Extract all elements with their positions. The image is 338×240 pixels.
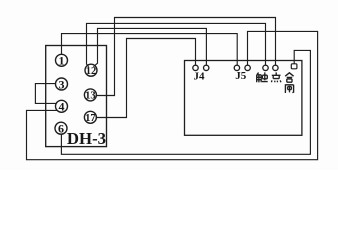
terminal 6: [55, 122, 67, 134]
label chudian (contact) char dian: [271, 72, 281, 82]
terminal 4: [56, 100, 68, 112]
svg-text:J5: J5: [235, 70, 247, 82]
wire: terminal 12 to J4-right: [93, 28, 206, 66]
terminal 17: [84, 111, 96, 123]
wire: terminal 4 loop to J5-right: [27, 31, 318, 159]
terminal 12: [85, 64, 97, 76]
terminal hezha (close) square: [291, 64, 297, 69]
label chudian (contact) char 2: [262, 72, 268, 81]
svg-text:DH-3: DH-3: [67, 129, 106, 148]
wire: terminal 1 to J5-left: [62, 34, 238, 65]
terminal 3: [56, 78, 68, 90]
relay box DH-3: [46, 46, 107, 147]
svg-text:13: 13: [85, 91, 96, 102]
label hezha (close) char 1: [285, 73, 293, 82]
label hezha (close) char 2: [285, 84, 293, 93]
terminal 13: [84, 89, 96, 101]
terminal 1: [56, 54, 68, 66]
terminal J5 left: [234, 65, 239, 70]
wire: terminal 13 to contact-right: [96, 18, 276, 96]
svg-text:12: 12: [86, 66, 97, 77]
terminal chudian (contact) left: [263, 65, 268, 70]
svg-text:3: 3: [59, 77, 65, 91]
device box (operating mechanism): [185, 61, 302, 136]
terminal J4 right: [204, 65, 209, 70]
svg-text:1: 1: [59, 54, 65, 68]
label chudian (contact) char 1: [257, 73, 262, 83]
terminal J4 left: [193, 65, 198, 70]
wire: terminal 6 to close-square: [61, 50, 310, 154]
wire: link terminal 3 to terminal 4: [35, 84, 56, 104]
wire: terminal 17 to J4-left: [96, 39, 196, 118]
svg-text:17: 17: [85, 113, 96, 124]
terminal J5 right: [245, 65, 250, 70]
terminal chudian (contact) right: [273, 65, 278, 70]
svg-text:4: 4: [59, 100, 65, 114]
svg-text:J4: J4: [194, 71, 206, 83]
wire: terminal 12 to contact-left: [87, 23, 266, 66]
svg-text:6: 6: [58, 122, 64, 136]
